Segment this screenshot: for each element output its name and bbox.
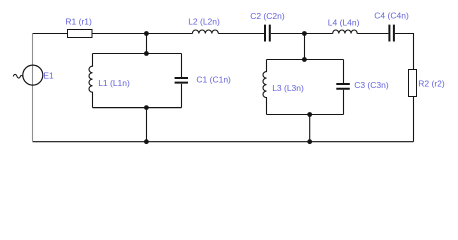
inductor L1 (left leg of tank1, 4 arcs bulging left) (89, 54, 93, 108)
junction dot rail right (307, 139, 312, 144)
svg-text:C1 (C1n): C1 (C1n) (196, 75, 231, 85)
wire stub node A to tank1 top (146, 34, 148, 54)
wire bottom rail (33, 141, 414, 143)
inductor L3 (left leg of tank2, 4 arcs bulging left) (263, 60, 267, 115)
wire node A to L2 (147, 33, 193, 35)
source E1 circle (23, 65, 43, 85)
svg-text:L4 (L4n): L4 (L4n) (328, 18, 360, 28)
wire stub tank1 bottom to rail (146, 108, 148, 142)
svg-text:C3 (C3n): C3 (C3n) (354, 80, 389, 90)
wire stub node B to tank2 top (304, 34, 306, 60)
capacitor C1 leads (right leg of tank1) (181, 54, 183, 108)
inductor L2 (4 arcs on top wire) (192, 30, 218, 33)
node A junction dot (top wire) (144, 31, 149, 36)
inductor L4 (4 arcs on top wire) (333, 30, 357, 33)
wire L2 to C2 (218, 33, 264, 35)
tank1 top wire (93, 53, 182, 55)
wire top-left horizontal (33, 33, 68, 35)
tank1 bottom wire (93, 107, 182, 109)
svg-text:L1 (L1n): L1 (L1n) (98, 78, 130, 88)
tank2 bottom wire (267, 114, 344, 116)
resistor R2 (409, 70, 417, 97)
capacitor C3 leads (right leg of tank2) (343, 60, 345, 115)
svg-text:R2 (r2): R2 (r2) (418, 79, 445, 89)
wire node B to L4 (305, 33, 333, 35)
svg-text:L3 (L3n): L3 (L3n) (272, 83, 304, 93)
junction dot tank2 bottom (307, 112, 312, 117)
source E1 gray lead (32, 34, 34, 141)
capacitor C1 plates (175, 78, 188, 83)
resistor R1 (68, 30, 93, 38)
svg-text:C2 (C2n): C2 (C2n) (250, 11, 285, 21)
capacitor C4 plates (389, 25, 394, 42)
junction dot tank1 top (144, 51, 149, 56)
wire R2 bottom lead to rail (413, 97, 415, 142)
source E1 sine squiggle (13, 74, 23, 78)
svg-text:C4 (C4n): C4 (C4n) (374, 11, 409, 21)
capacitor C3 plates (336, 84, 350, 89)
svg-text:R1 (r1): R1 (r1) (65, 17, 92, 27)
wire C4 to top-right corner down to R2 (395, 34, 414, 70)
junction dot rail left (144, 139, 149, 144)
wire stub tank2 bottom to rail (309, 115, 311, 142)
wire L4 to C4 (357, 33, 388, 35)
junction dot tank2 top (302, 57, 307, 62)
tank2 top wire (267, 59, 344, 61)
wire R1 to junction node A (92, 33, 147, 35)
svg-text:E1: E1 (43, 71, 54, 81)
svg-text:L2 (L2n): L2 (L2n) (188, 17, 220, 27)
capacitor C2 plates (265, 25, 270, 42)
node B junction dot (top wire) (302, 31, 307, 36)
junction dot tank1 bottom (144, 105, 149, 110)
wire C2 to junction node B (271, 33, 305, 35)
